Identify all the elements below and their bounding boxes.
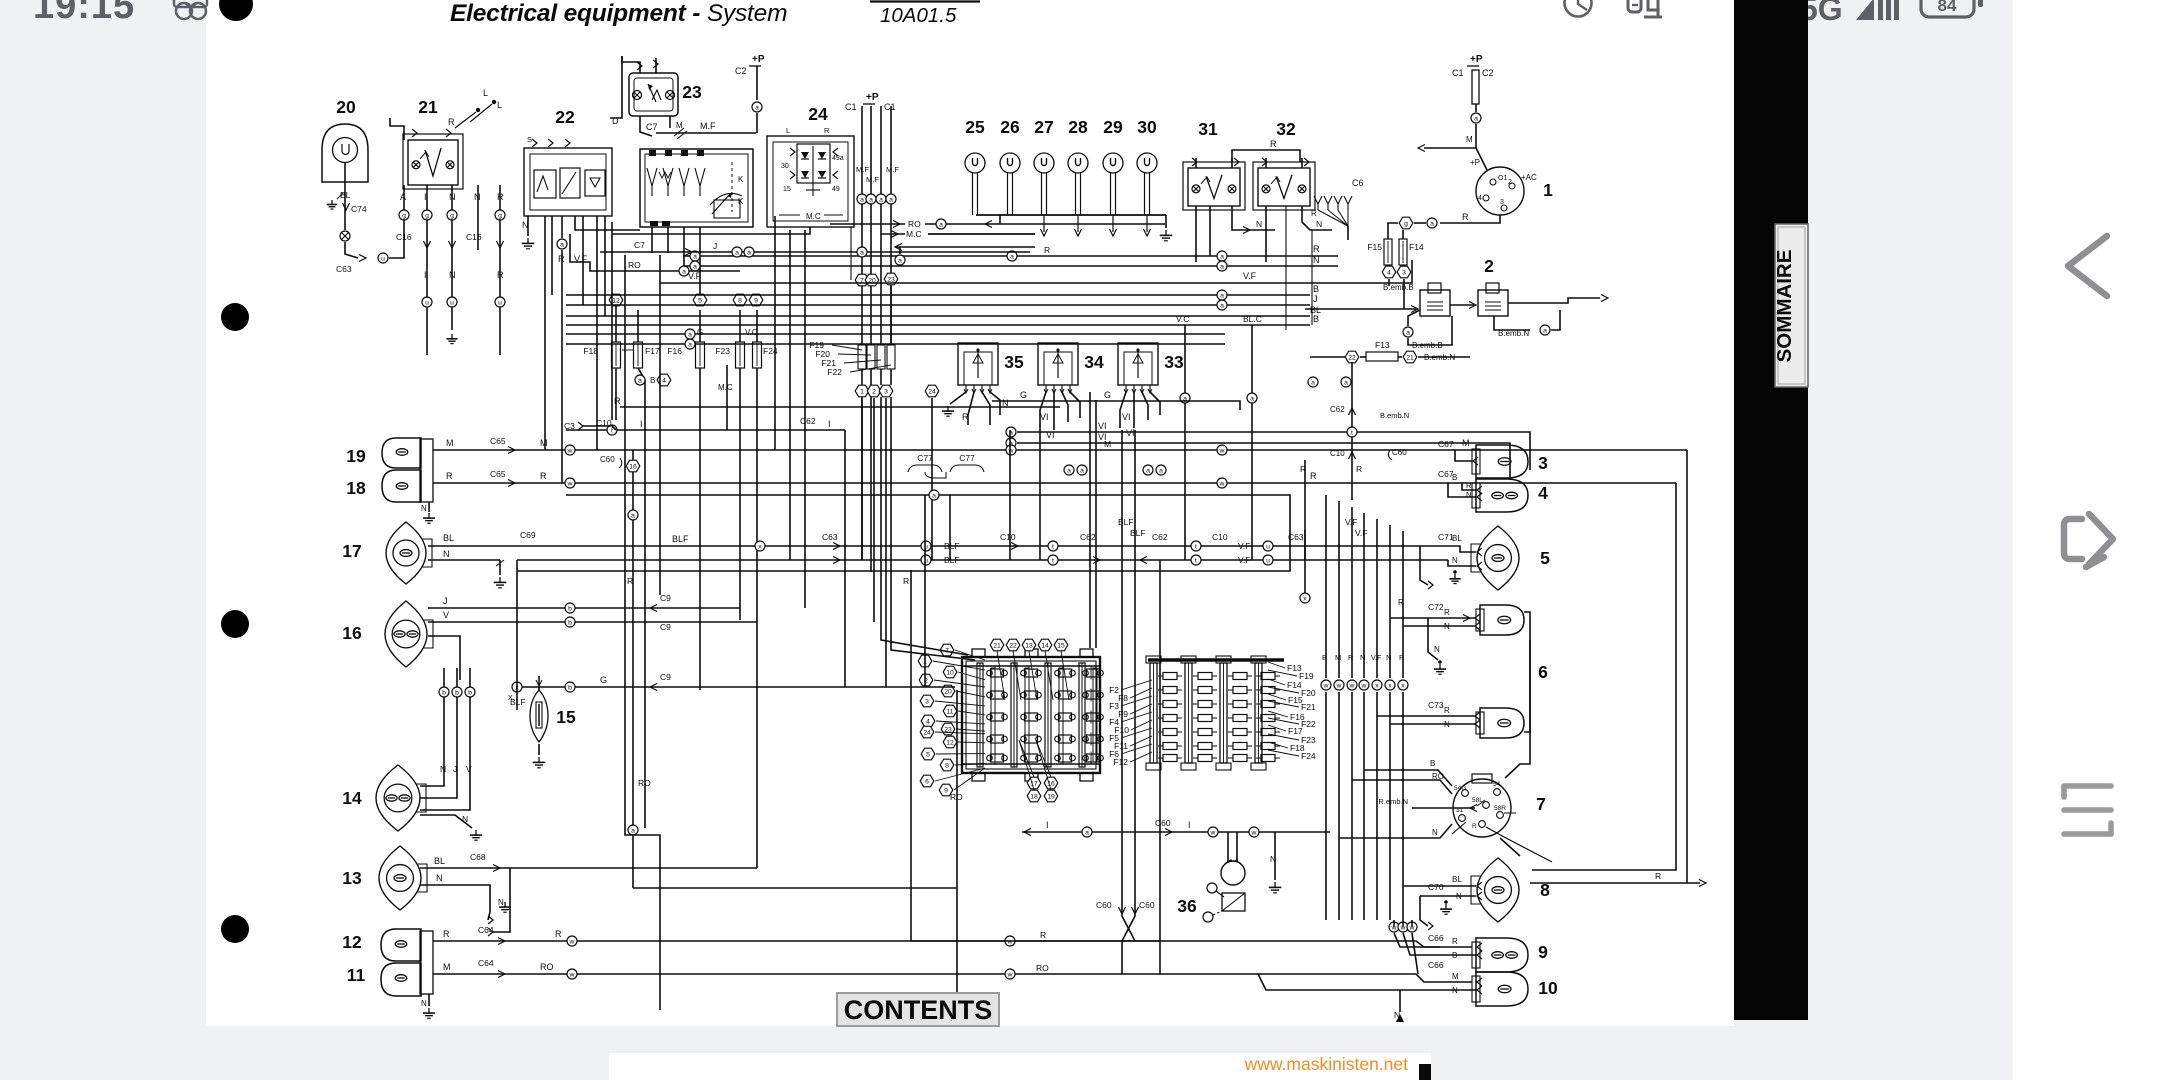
svg-text:a: a <box>1220 292 1224 299</box>
svg-text:I: I <box>424 192 427 202</box>
svg-text:M: M <box>443 962 451 972</box>
svg-text:BLF: BLF <box>1130 528 1146 538</box>
lamp14 N ground <box>420 814 482 840</box>
punch hole 2 <box>221 303 249 331</box>
svg-text:B: B <box>1313 284 1319 294</box>
svg-text:C67: C67 <box>1438 439 1454 449</box>
lamp 10 <box>1472 972 1558 1006</box>
lamp13 BL N rows <box>420 852 757 936</box>
svg-text:b: b <box>468 689 472 696</box>
svg-text:G: G <box>1104 390 1111 400</box>
RD drop wire x957 <box>950 690 963 1010</box>
svg-text:6: 6 <box>925 778 929 785</box>
svg-text:L: L <box>786 126 790 135</box>
svg-text:F17: F17 <box>645 346 660 356</box>
svg-text:R: R <box>1356 464 1362 474</box>
svg-text:a: a <box>898 257 902 264</box>
lamp 5 <box>1471 526 1550 590</box>
svg-text:10: 10 <box>1538 978 1558 998</box>
svg-text:C64: C64 <box>478 958 494 968</box>
svg-text:a: a <box>1067 467 1071 474</box>
svg-text:X: X <box>508 695 513 702</box>
svg-text:36: 36 <box>1177 896 1197 916</box>
hex nodes 7 20 23 <box>855 273 898 286</box>
svg-text:19:15: 19:15 <box>33 0 135 27</box>
ignition switch 1 <box>1470 158 1553 215</box>
wires below 24 <box>612 165 899 345</box>
svg-text:a: a <box>693 263 697 270</box>
svg-text:12: 12 <box>612 297 620 304</box>
svg-text:+P: +P <box>1470 54 1483 65</box>
lamp 17 <box>342 522 432 584</box>
wire from switch 1 down-left <box>1388 212 1500 239</box>
svg-text:t: t <box>1052 543 1054 550</box>
svg-text:21: 21 <box>418 97 438 117</box>
svg-text:a: a <box>1220 302 1224 309</box>
svg-text:F14: F14 <box>1287 680 1302 690</box>
svg-text:C9: C9 <box>660 622 671 632</box>
fuse box A left pin labels <box>918 644 985 796</box>
svg-text:2: 2 <box>872 388 876 395</box>
svg-text:R: R <box>1310 471 1317 481</box>
svg-text:R: R <box>1040 930 1046 940</box>
svg-text:C60: C60 <box>1155 818 1171 828</box>
svg-text:C1: C1 <box>884 102 896 112</box>
svg-text:B.emb.N: B.emb.N <box>1424 353 1455 362</box>
svg-text:M.C: M.C <box>906 229 922 239</box>
svg-text:C1: C1 <box>1452 68 1464 78</box>
svg-text:I: I <box>640 419 643 429</box>
svg-text:M.F: M.F <box>700 121 716 131</box>
svg-text:M: M <box>1466 135 1473 144</box>
feeds into lamp9 C66 <box>1394 933 1482 960</box>
svg-text:R: R <box>497 270 504 280</box>
connector 7 <box>1452 774 1552 862</box>
svg-text:4: 4 <box>926 718 930 725</box>
svg-text:M.F: M.F <box>856 165 869 174</box>
svg-text:C62: C62 <box>1330 405 1345 414</box>
svg-text:RO: RO <box>950 792 963 802</box>
verticals through center <box>718 216 1040 687</box>
svg-text:A: A <box>400 192 406 202</box>
svg-text:N: N <box>462 814 468 824</box>
status notif glyphs <box>1628 0 1662 17</box>
svg-text:t: t <box>611 427 613 434</box>
svg-text:12: 12 <box>342 932 362 952</box>
wires below 22 <box>522 216 597 264</box>
svg-text:R: R <box>540 471 547 481</box>
lamp 11 <box>347 963 421 996</box>
svg-text:F9: F9 <box>1118 709 1128 719</box>
svg-text:2: 2 <box>1508 179 1512 186</box>
svg-text:R: R <box>446 471 453 481</box>
svg-text:21: 21 <box>993 642 1001 649</box>
R column right <box>1300 460 1310 603</box>
svg-text:C65: C65 <box>490 436 506 446</box>
scanned page background <box>206 0 1734 1026</box>
svg-text:F8: F8 <box>1118 693 1128 703</box>
svg-text:25: 25 <box>965 117 985 137</box>
svg-text:C69: C69 <box>520 530 536 540</box>
svg-text:M: M <box>1462 438 1470 448</box>
gauge 23 <box>629 73 702 116</box>
svg-text:3: 3 <box>1538 453 1548 473</box>
lamp 14 <box>342 765 426 831</box>
svg-text:R: R <box>443 929 450 939</box>
lamp16 J V rows <box>428 593 757 680</box>
svg-text:18: 18 <box>1030 793 1038 800</box>
svg-text:32: 32 <box>1276 119 1296 139</box>
svg-text:u: u <box>498 299 502 306</box>
svg-text:N: N <box>1360 653 1365 662</box>
fuses F23 F24 <box>715 294 778 868</box>
svg-text:16: 16 <box>342 623 362 643</box>
svg-text:B: B <box>1430 759 1435 768</box>
svg-text:R: R <box>1655 871 1661 881</box>
black strip overlay top <box>1734 0 1808 40</box>
svg-text:F22: F22 <box>1301 719 1316 729</box>
lamp 4 <box>1472 479 1548 512</box>
inline fuse 15 <box>510 676 576 768</box>
svg-text:N: N <box>1313 255 1320 265</box>
svg-text:M: M <box>1335 653 1341 662</box>
svg-text:t: t <box>1195 557 1197 564</box>
svg-text:N: N <box>421 504 427 513</box>
fuse box B right labels <box>1268 662 1316 761</box>
svg-text:5: 5 <box>698 297 702 304</box>
svg-text:N: N <box>1452 556 1458 565</box>
left tall frame wire around 22 <box>612 222 660 1010</box>
lamp 12 <box>342 929 421 961</box>
svg-text:C63: C63 <box>1288 532 1304 542</box>
svg-text:N: N <box>498 898 504 907</box>
svg-text:w: w <box>1251 829 1257 836</box>
svg-text:B.emb.N: B.emb.N <box>1498 329 1529 338</box>
svg-text:24: 24 <box>923 729 931 736</box>
svg-text:C16: C16 <box>466 232 482 242</box>
svg-text:a: a <box>1146 467 1150 474</box>
svg-text:F16: F16 <box>667 346 682 356</box>
svg-text:a: a <box>1080 467 1084 474</box>
svg-text:M: M <box>1452 972 1459 981</box>
svg-text:a: a <box>1220 263 1224 270</box>
svg-text:31: 31 <box>1198 119 1218 139</box>
svg-text:V: V <box>466 764 472 774</box>
svg-text:B.emb.B: B.emb.B <box>1412 341 1443 350</box>
svg-text:a: a <box>755 104 759 111</box>
svg-text:N: N <box>474 192 481 202</box>
svg-text:u: u <box>450 299 454 306</box>
svg-text:R: R <box>497 192 504 202</box>
lamp 13 <box>342 846 427 910</box>
V.C / BL.C verticals <box>1176 314 1262 560</box>
svg-text:a: a <box>1010 253 1014 260</box>
svg-text:a: a <box>932 492 936 499</box>
svg-text:C60: C60 <box>600 455 615 464</box>
fuses F15 F14 <box>1367 239 1424 309</box>
svg-text:R.emb.N: R.emb.N <box>1378 797 1408 806</box>
svg-text:SOMMAIRE: SOMMAIRE <box>1773 250 1796 363</box>
svg-text:a: a <box>1344 379 1348 386</box>
svg-text:w: w <box>1336 682 1342 689</box>
svg-text:w: w <box>1361 682 1367 689</box>
svg-text:R: R <box>1444 608 1450 617</box>
svg-text:+P: +P <box>1470 158 1480 167</box>
svg-text:17: 17 <box>342 541 361 561</box>
svg-text:26: 26 <box>1000 117 1020 137</box>
svg-text:R: R <box>1398 598 1404 607</box>
lamp17 N row / second BLF row <box>428 549 1482 588</box>
svg-text:O1: O1 <box>1498 175 1507 182</box>
svg-text:35: 35 <box>1004 352 1024 372</box>
fuse group F18 F17 <box>583 294 660 420</box>
svg-text:C7: C7 <box>634 240 645 250</box>
svg-text:w: w <box>567 480 573 487</box>
svg-text:C66: C66 <box>1428 960 1444 970</box>
wire lamp20 to C63 <box>327 163 404 274</box>
svg-text:33: 33 <box>1164 352 1184 372</box>
RO short row left <box>570 234 1030 276</box>
vertical drop wires below 22 area <box>545 216 640 483</box>
svg-text:V.F: V.F <box>1238 555 1250 565</box>
svg-text:C71: C71 <box>1438 532 1454 542</box>
toolbar white column <box>2013 0 2160 1080</box>
svg-text:N: N <box>1456 892 1462 901</box>
svg-text:L: L <box>483 88 488 98</box>
svg-text:CONTENTS: CONTENTS <box>844 995 993 1025</box>
svg-text:R: R <box>555 929 562 939</box>
fuse bank F19-F22 <box>809 340 895 377</box>
svg-text:a: a <box>682 268 686 275</box>
svg-text:R: R <box>1348 653 1354 662</box>
svg-text:N: N <box>1432 828 1438 837</box>
lamp 8 <box>1471 858 1550 922</box>
feeds into lamp8 C70 <box>1403 875 1482 930</box>
svg-text:N: N <box>1386 653 1391 662</box>
svg-text:5: 5 <box>1540 548 1550 568</box>
lamp 18/19 connector tab <box>420 439 435 523</box>
svg-text:30: 30 <box>781 163 789 170</box>
svg-text:I: I <box>828 419 831 429</box>
svg-text:R: R <box>1044 245 1050 255</box>
svg-text:G: G <box>1020 390 1027 400</box>
svg-text:N: N <box>1270 854 1276 864</box>
svg-text:J: J <box>443 596 448 606</box>
svg-text:a: a <box>1406 329 1410 336</box>
svg-text:R: R <box>1444 706 1450 715</box>
svg-text:20: 20 <box>336 97 356 117</box>
svg-text:16: 16 <box>629 463 637 470</box>
svg-text:C70: C70 <box>1428 882 1444 892</box>
svg-text:R: R <box>824 126 830 135</box>
toolbar back chevron <box>2068 236 2107 296</box>
scan black right border strip <box>1734 0 1808 1020</box>
svg-text:M.C: M.C <box>806 212 821 221</box>
bottom long rows to lamps9/10 <box>633 888 1160 941</box>
RO MC feed lines <box>830 219 1165 265</box>
status signal bars <box>1856 0 1899 20</box>
svg-text:4: 4 <box>1538 483 1548 503</box>
svg-text:t: t <box>1052 557 1054 564</box>
svg-text:g: g <box>425 212 429 219</box>
svg-text:w: w <box>1210 829 1216 836</box>
svg-text:K: K <box>738 197 744 206</box>
svg-text:6: 6 <box>1538 662 1548 682</box>
fuse box A top pin labels <box>990 639 1069 700</box>
lamp11 M row C64 <box>433 958 1472 982</box>
svg-text:G: G <box>697 328 703 337</box>
svg-text:C3: C3 <box>564 421 575 431</box>
status clock icon <box>1565 0 1592 17</box>
svg-text:34: 34 <box>1084 352 1104 372</box>
punch hole 1 <box>219 0 253 21</box>
svg-text:19: 19 <box>346 446 366 466</box>
svg-text:BL.C: BL.C <box>1243 314 1262 324</box>
svg-text:C9: C9 <box>660 593 671 603</box>
svg-text:19: 19 <box>1047 793 1055 800</box>
svg-text:R: R <box>448 117 455 127</box>
svg-text:N: N <box>1316 219 1322 229</box>
R drop wire x911 <box>903 570 911 941</box>
svg-text:BL: BL <box>1452 875 1462 884</box>
svg-text:F14: F14 <box>1409 242 1424 252</box>
svg-text:x: x <box>1375 682 1379 689</box>
svg-text:F13: F13 <box>1375 340 1390 350</box>
svg-text:22: 22 <box>1348 354 1356 361</box>
svg-text:C77: C77 <box>959 453 975 463</box>
svg-text:2: 2 <box>1484 256 1494 276</box>
svg-text:a: a <box>1159 467 1163 474</box>
svg-text:15: 15 <box>783 186 791 193</box>
svg-text:10: 10 <box>946 669 954 676</box>
svg-text:BLF: BLF <box>944 541 960 551</box>
svg-text:R: R <box>1270 139 1277 149</box>
svg-text:F21: F21 <box>1301 702 1316 712</box>
svg-text:a: a <box>688 341 692 348</box>
svg-text:9: 9 <box>754 297 758 304</box>
svg-text:a: a <box>860 196 864 203</box>
C6 contact group <box>1314 178 1364 240</box>
svg-text:RO: RO <box>628 260 641 270</box>
svg-text:R: R <box>627 576 633 586</box>
svg-text:a: a <box>860 249 864 256</box>
svg-text:N: N <box>449 192 456 202</box>
svg-text:a: a <box>1474 115 1478 122</box>
hook to lamp5 C71 <box>1420 532 1454 589</box>
svg-text:I: I <box>424 270 427 280</box>
svg-text:R: R <box>1313 244 1320 254</box>
svg-text:22: 22 <box>555 107 575 127</box>
svg-text:V.F: V.F <box>1355 528 1367 538</box>
svg-text:F23: F23 <box>715 346 730 356</box>
+P C1 node above 24 <box>845 92 896 194</box>
svg-text:C74: C74 <box>351 204 367 214</box>
conn w triple above lamp9 <box>1389 920 1417 932</box>
svg-text:a: a <box>638 377 642 384</box>
control unit 34 <box>1038 343 1104 393</box>
svg-text:a: a <box>1220 253 1224 260</box>
svg-text:C64: C64 <box>478 925 494 935</box>
svg-text:b: b <box>568 619 572 626</box>
relay 31 <box>1183 119 1245 210</box>
svg-text:a: a <box>631 512 635 519</box>
cluster pin wires <box>652 227 700 300</box>
svg-text:R: R <box>614 396 621 406</box>
lamp16 drop wires N J V <box>420 668 475 810</box>
svg-text:23: 23 <box>682 82 702 102</box>
fuse box block B <box>1146 656 1284 770</box>
wires below 31/32 <box>1196 206 1332 330</box>
svg-text:www.maskinisten.net: www.maskinisten.net <box>1244 1054 1409 1074</box>
fuse box A bottom pin labels <box>1019 740 1058 802</box>
lamp18 R bus row <box>433 469 1482 501</box>
svg-text:15: 15 <box>1057 642 1065 649</box>
CONTENTS button <box>837 993 999 1026</box>
svg-text:M: M <box>446 438 454 448</box>
svg-text:t: t <box>1195 543 1197 550</box>
svg-text:R: R <box>1462 212 1469 222</box>
svg-text:x: x <box>1303 595 1307 602</box>
horn supply row <box>1022 818 1330 893</box>
horn switch 36 <box>1177 860 1245 922</box>
svg-text:+AC: +AC <box>1521 173 1537 182</box>
feeds into lamp10 C66 <box>1258 933 1482 995</box>
next page preview strip <box>609 1053 1431 1080</box>
svg-text:3: 3 <box>1500 199 1504 206</box>
svg-text:N: N <box>1452 986 1458 995</box>
svg-text:15: 15 <box>556 707 576 727</box>
svg-text:M.C: M.C <box>718 383 733 392</box>
svg-text:C62: C62 <box>1080 532 1096 542</box>
lamp 3 <box>1472 445 1548 478</box>
page title <box>450 0 787 27</box>
svg-text:u: u <box>1266 543 1270 550</box>
svg-text:BLF: BLF <box>672 534 689 544</box>
svg-text:12: 12 <box>946 739 954 746</box>
svg-text:a: a <box>1250 395 1254 402</box>
svg-text:a: a <box>1311 379 1315 386</box>
C62 C10 column right <box>1308 362 1409 500</box>
lamp cluster 6 <box>1476 605 1548 738</box>
svg-text:M: M <box>676 121 683 130</box>
svg-text:BLF: BLF <box>944 555 960 565</box>
switch contacts above 21 <box>448 88 502 128</box>
svg-text:22: 22 <box>1009 642 1017 649</box>
svg-text:C60: C60 <box>1096 900 1112 910</box>
svg-text:g: g <box>498 212 502 219</box>
svg-text:a: a <box>1543 327 1547 334</box>
wires below 33 <box>1120 392 1160 438</box>
svg-text:58R: 58R <box>1494 805 1506 812</box>
svg-text:C63: C63 <box>336 264 352 274</box>
svg-text:C2: C2 <box>735 66 747 76</box>
svg-text:V.F: V.F <box>1238 541 1250 551</box>
svg-text:x: x <box>758 543 762 550</box>
svg-text:M: M <box>1104 439 1111 449</box>
svg-text:C10: C10 <box>1212 532 1228 542</box>
svg-text:R: R <box>1452 937 1458 946</box>
svg-text:BLF: BLF <box>1118 517 1134 527</box>
svg-text:C9: C9 <box>660 672 671 682</box>
svg-text:N: N <box>443 549 450 559</box>
toolbar export icon <box>2064 514 2113 567</box>
svg-text:RO: RO <box>1036 963 1049 973</box>
svg-text:C68: C68 <box>470 852 486 862</box>
svg-text:V.F: V.F <box>1243 271 1257 281</box>
svg-text:w: w <box>1219 447 1225 454</box>
svg-text:29: 29 <box>1103 117 1123 137</box>
svg-text:u: u <box>381 255 385 262</box>
